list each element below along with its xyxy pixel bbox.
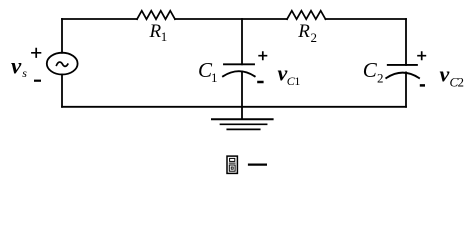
source plus sign	[31, 48, 41, 58]
label R1	[149, 21, 168, 44]
capacitor C1 curved plate	[223, 71, 255, 76]
wire bottom rail	[62, 106, 406, 108]
wire source bottom lead	[61, 75, 63, 107]
wire top rail middle segment	[175, 18, 287, 20]
ground bar 1	[212, 118, 273, 120]
capacitor C2 curved plate	[386, 73, 419, 78]
svg-text:2: 2	[311, 30, 318, 45]
wire C2 bottom lead	[405, 72, 407, 106]
svg-text:v: v	[440, 61, 450, 86]
resistor R1	[137, 11, 175, 20]
wire C1 bottom lead to ground	[241, 72, 243, 119]
svg-text:s: s	[22, 66, 27, 80]
source vs (AC) circle	[47, 53, 78, 75]
label R2	[297, 21, 317, 45]
svg-text:R: R	[149, 21, 162, 42]
svg-text:2: 2	[458, 74, 465, 89]
wire top rail right segment	[326, 18, 407, 20]
label vC2	[440, 61, 465, 89]
caption figure-1 glyph tu	[227, 156, 237, 173]
ground bar 2	[221, 123, 267, 125]
resistor R2	[287, 11, 326, 20]
svg-text:1: 1	[211, 70, 218, 85]
ground bar 3	[227, 128, 259, 130]
source minus sign	[34, 80, 41, 82]
source vs sine symbol	[57, 62, 68, 66]
label C2	[363, 58, 384, 86]
wire C1 top lead	[241, 19, 243, 64]
label C1	[198, 58, 218, 85]
capacitor C2 minus sign	[420, 84, 425, 87]
wire top rail left segment	[62, 18, 137, 20]
svg-text:C: C	[363, 58, 378, 82]
label vC1	[278, 61, 301, 89]
svg-text:2: 2	[377, 71, 384, 86]
wire source top lead	[61, 19, 63, 53]
caption figure-1 glyph one	[248, 163, 267, 165]
capacitor C1 top plate	[224, 63, 254, 65]
svg-text:R: R	[297, 21, 310, 42]
svg-text:v: v	[11, 53, 22, 78]
svg-text:1: 1	[294, 74, 300, 88]
svg-text:1: 1	[161, 29, 168, 44]
capacitor C2 top plate	[388, 64, 417, 66]
capacitor C1 plus sign	[258, 51, 267, 60]
capacitor C1 minus sign	[257, 81, 263, 84]
capacitor C2 plus sign	[417, 51, 426, 60]
wire C2 top lead	[405, 19, 407, 65]
label vs	[11, 53, 27, 80]
